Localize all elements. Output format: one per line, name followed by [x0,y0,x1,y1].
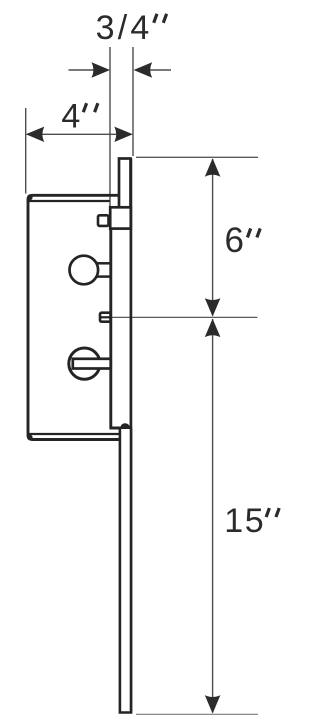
3/4 dim left arrowhead [92,62,111,77]
faceplate top tab [119,159,131,208]
lock case lid inner bottom line [29,433,120,435]
top mounting screw [98,215,109,226]
extension line between 6 and 15 dims [112,316,258,318]
svg-text:15: 15 [224,502,265,540]
faceplate right edge [130,158,133,713]
3/4 dim left leader line [69,69,95,71]
lock case lid inner top line [29,200,110,202]
prime marks of 3/4'' [154,14,167,23]
svg-text:4: 4 [61,97,80,135]
prime marks of 15'' [266,508,279,517]
spindle hub block [110,207,131,228]
prime marks of 6'' [247,228,260,237]
4 dim left arrowhead [26,127,45,142]
knob stem top line [97,262,111,265]
extension line right of 3/4 dim [132,47,134,156]
3/4 dim right arrowhead [134,62,153,77]
6 dim bottom arrowhead [205,298,221,317]
knob circle [70,256,99,285]
extension line left of 4 dim [25,108,27,194]
extension line top of 6 dim [136,156,258,158]
thumbturn circle [69,348,100,379]
6 dim top arrowhead [205,158,221,177]
15 dim top arrowhead [205,319,221,338]
prime marks of 4'' [83,103,98,112]
4 dim line [27,133,132,135]
extension line bottom of 15 dim [136,713,258,715]
extension line left of 3/4 dim [109,47,111,206]
15 dim bottom arrowhead [205,695,221,714]
lock case corner blob bottom [27,435,32,440]
svg-text:3/4: 3/4 [96,9,153,47]
lock case corner blob top [27,195,32,200]
4 dim right arrowhead [114,127,133,142]
lock case outline [28,195,120,439]
3/4 dim right leader line [150,69,171,71]
mounting plate bottom edge [109,427,132,430]
lower strike plate [120,429,131,713]
rivet dome at plate joint [121,423,130,427]
15 dim line [212,319,214,713]
thumbturn bar [73,359,111,369]
knob stem bottom line [97,275,111,278]
mounting plate left edge [109,228,112,427]
middle screw head [100,313,111,322]
6 dim line [212,159,214,316]
middle screw slot [99,316,111,318]
svg-text:6: 6 [225,221,244,260]
